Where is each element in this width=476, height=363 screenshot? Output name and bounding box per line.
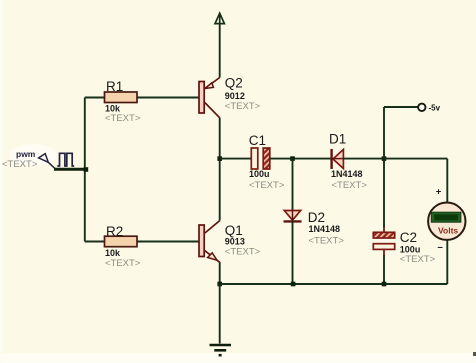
svg-text:<TEXT>: <TEXT> [105,258,141,269]
wire right rail vertical [383,107,385,284]
pwm generator probe [39,153,86,169]
wire ground drop [219,284,221,344]
svg-text:9013: 9013 [225,237,245,247]
resistor R2 [105,236,138,247]
wire Q1 emitter down [219,262,221,284]
power arrow [215,13,224,24]
junction C2 bottom node [382,282,387,287]
wire top vertical (power to Q2 emitter) [219,24,221,78]
wire voltmeter branch horizontal [384,158,447,160]
wire C1 to D1 [270,158,331,160]
svg-text:D1: D1 [329,132,346,147]
svg-text:D2: D2 [308,210,325,225]
svg-text:R1: R1 [106,79,123,94]
wire D2 branch top [292,159,294,211]
svg-text:100u: 100u [249,169,270,179]
svg-text:−: − [437,243,443,254]
svg-text:pwm: pwm [16,149,36,159]
wire left rail [84,98,86,242]
svg-text:<TEXT>: <TEXT> [225,101,261,112]
svg-text:-5v: -5v [429,104,441,113]
junction ground node [217,282,222,287]
capacitor C2 [373,226,394,256]
wire D1 to right rail [343,158,384,160]
wire voltmeter branch down [446,159,448,203]
wire voltmeter bottom [446,240,448,284]
svg-text:C2: C2 [400,230,417,245]
svg-text:1N4148: 1N4148 [331,169,363,179]
diode D2 [284,211,302,222]
terminal -5v [418,104,425,111]
capacitor C1 [251,148,270,169]
transistor Q1 (NPN 9013) [199,221,220,263]
svg-text:R2: R2 [106,224,123,239]
svg-text:<TEXT>: <TEXT> [225,246,261,257]
svg-text:<TEXT>: <TEXT> [2,159,38,170]
junction D2 top node [290,156,295,161]
svg-text:<TEXT>: <TEXT> [400,254,436,265]
voltmeter U1 [428,203,465,240]
svg-text:100u: 100u [400,244,421,254]
junction pwm-rail [84,167,89,172]
wire R2 right to Q1 base [137,241,199,243]
wire output to C1 [220,158,252,160]
diode D1 [332,149,344,169]
svg-text:<TEXT>: <TEXT> [249,180,285,191]
wire mid vertical (Q2 collector to Q1 collector) [219,118,221,221]
wire R1 right to Q2 base [137,97,199,99]
halo behind pwm label [9,144,57,166]
wire bottom rail [220,283,448,285]
wire R2 left [85,241,105,243]
svg-text:Volts: Volts [438,226,458,236]
svg-text:1N4148: 1N4148 [309,224,341,234]
svg-text:Q2: Q2 [225,76,243,91]
wire R1 left [85,97,105,99]
ground [210,345,232,355]
resistor R1 [105,92,138,103]
svg-text:10k: 10k [105,248,121,258]
wire D2 branch bottom [292,221,294,284]
svg-text:<TEXT>: <TEXT> [332,180,368,191]
junction right rail node [382,156,387,161]
svg-text:+: + [436,187,442,198]
svg-text:<TEXT>: <TEXT> [309,235,345,246]
junction D2 bottom node [291,282,296,287]
junction output node [217,156,222,161]
svg-text:<TEXT>: <TEXT> [105,113,141,124]
svg-text:C1: C1 [249,133,266,148]
svg-text:9012: 9012 [225,91,245,101]
transistor Q2 (PNP 9012) [199,78,220,118]
wire to -5v terminal [384,106,418,108]
